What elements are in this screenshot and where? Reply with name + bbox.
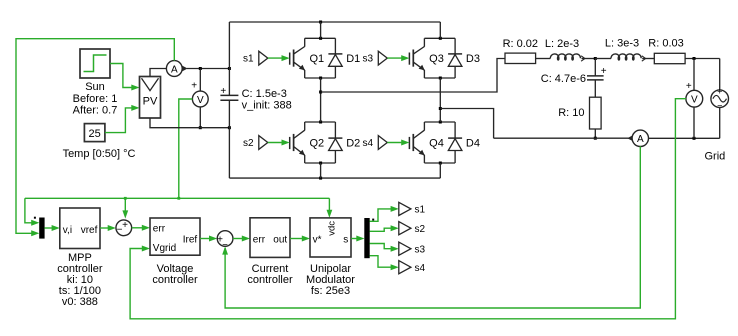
- wire Iref to sum2: [200, 236, 217, 242]
- diode D3: [448, 38, 480, 78]
- svg-text:C: 4.7e-6: C: 4.7e-6: [541, 73, 586, 85]
- svg-text:Vgrid: Vgrid: [153, 243, 176, 254]
- goto tag s1: [399, 202, 426, 215]
- transistor Q3: [409, 37, 455, 80]
- wire s to demux: [351, 236, 365, 242]
- svg-text:R: 10: R: 10: [558, 107, 584, 119]
- svg-text:Before: 1: Before: 1: [73, 93, 118, 105]
- wire A1 output arrow to DC bus: [182, 66, 231, 71]
- wire bridge output lower to filter return: [440, 109, 493, 139]
- capacitor C: 4.7e-6 branch: [541, 59, 607, 98]
- svg-text:L: 3e-3: L: 3e-3: [605, 38, 639, 50]
- wire leg stems right: [439, 22, 442, 178]
- svg-text:s2: s2: [415, 224, 426, 235]
- diode D1: [328, 38, 360, 78]
- resistor R: 10: [558, 97, 601, 140]
- wire R2 to grid corner: [685, 57, 720, 60]
- svg-text:err: err: [153, 223, 166, 234]
- measurement wire V1 down to vdc line: [179, 99, 193, 198]
- svg-text:+: +: [191, 80, 197, 91]
- transistor Q2: [290, 121, 336, 165]
- svg-text:−: −: [717, 101, 722, 111]
- step source Sun block: [80, 49, 110, 78]
- svg-text:A: A: [171, 64, 178, 75]
- svg-text:D2: D2: [346, 138, 360, 150]
- label Current controller: [247, 263, 293, 286]
- diode D2: [328, 122, 360, 163]
- Current controller block: [250, 218, 290, 258]
- goto tag s2: [399, 222, 426, 235]
- Unipolar Modulator block: [310, 218, 351, 257]
- wire sum2 to Current controller: [233, 236, 250, 242]
- wire Sun to PV input 1: [110, 64, 140, 91]
- svg-text:+: +: [686, 81, 692, 92]
- gate signal tag s4: [362, 136, 409, 150]
- gate signal tag s2: [243, 136, 290, 150]
- transistor Q1: [290, 37, 336, 80]
- svg-text:V: V: [197, 95, 204, 106]
- mux (v,i): [34, 217, 45, 239]
- measurement wire A2 to current sum: [222, 146, 640, 308]
- svg-text:s3: s3: [415, 244, 426, 255]
- svg-text:controller: controller: [152, 274, 198, 286]
- wire demux to goto s2: [370, 225, 399, 231]
- ammeter A1 (PV current): [166, 61, 182, 77]
- svg-text:v*: v*: [313, 234, 322, 245]
- sum junction 1: [116, 220, 132, 236]
- svg-text:L: 2e-3: L: 2e-3: [545, 38, 579, 50]
- svg-text:D3: D3: [466, 53, 480, 65]
- svg-text:25: 25: [88, 128, 100, 140]
- DC link rail left with capacitor C 1.5e-3: [220, 22, 238, 178]
- wire sum1 to Voltage controller: [132, 225, 150, 231]
- sum junction 2: [217, 231, 233, 251]
- wire mux to MPP controller: [44, 225, 59, 231]
- svg-text:fs: 25e3: fs: 25e3: [311, 285, 350, 297]
- label Sun / Before / After: [73, 81, 118, 117]
- resistor R: 0.03: [648, 38, 685, 64]
- measurement wire A1 to mux (PV current): [16, 39, 174, 237]
- svg-text:s1: s1: [415, 205, 426, 216]
- svg-text:D1: D1: [346, 53, 360, 65]
- transistor Q4: [409, 121, 455, 165]
- voltmeter V1 (PV voltage): [191, 69, 208, 130]
- svg-text:v0: 388: v0: 388: [62, 296, 98, 308]
- diode D4: [448, 122, 480, 163]
- inductor L: 3e-3: [595, 38, 654, 62]
- wire L1 to node: [582, 57, 597, 60]
- demux bus: [364, 218, 374, 258]
- label Unipolar Modulator fs: [306, 263, 355, 297]
- svg-text:+: +: [601, 66, 607, 77]
- svg-text:Sun: Sun: [85, 81, 105, 93]
- svg-text:PV: PV: [143, 96, 158, 108]
- label Temp [0:50] C: [63, 148, 136, 160]
- svg-text:s4: s4: [415, 263, 426, 274]
- svg-text:Grid: Grid: [705, 150, 726, 162]
- label Voltage controller: [152, 263, 198, 286]
- svg-text:s3: s3: [362, 54, 373, 65]
- Voltage controller block: [150, 218, 200, 255]
- svg-text:s1: s1: [243, 54, 254, 65]
- gate signal tag s1: [243, 51, 290, 65]
- goto tag s3: [399, 242, 426, 255]
- svg-text:vref: vref: [81, 225, 98, 236]
- constant block 25: [84, 124, 105, 142]
- MPP controller block: [60, 208, 100, 249]
- svg-text:s: s: [343, 234, 348, 245]
- goto tag s4: [399, 261, 426, 274]
- svg-text:+: +: [220, 86, 226, 97]
- svg-text:Q3: Q3: [429, 53, 444, 65]
- wire PV+ to ammeter A1: [150, 69, 166, 77]
- svg-text:V: V: [691, 95, 698, 106]
- measurement wire V2 to Vgrid: [130, 99, 686, 319]
- label MPP controller ki ts v0: [57, 252, 103, 308]
- ammeter A2 (grid current): [632, 130, 720, 146]
- svg-text:Q1: Q1: [309, 53, 324, 65]
- voltmeter V2 (grid voltage): [686, 59, 703, 139]
- wire vdc branch to sum1: [122, 198, 128, 218]
- AC source Grid: [711, 59, 729, 139]
- svg-text:+: +: [717, 87, 722, 97]
- svg-text:+: +: [122, 220, 128, 231]
- wire PV- to DC bus bottom: [150, 118, 231, 129]
- svg-text:A: A: [637, 134, 644, 145]
- svg-text:After: 0.7: After: 0.7: [73, 105, 118, 117]
- svg-text:D4: D4: [466, 138, 480, 150]
- H-bridge top rail: [229, 21, 440, 24]
- filter bottom rail: [494, 136, 633, 141]
- svg-text:out: out: [273, 234, 287, 245]
- label C: 1.5e-3 / v_init: 388: [242, 88, 292, 112]
- wire demux to goto s1: [370, 206, 399, 221]
- inductor L: 2e-3: [545, 38, 585, 61]
- svg-text:v,i: v,i: [63, 225, 72, 236]
- svg-text:err: err: [253, 234, 266, 245]
- gate signal tag s3: [362, 51, 409, 65]
- H-bridge bottom rail: [229, 177, 440, 180]
- wire bridge output upper to filter: [321, 59, 505, 93]
- svg-text:Temp [0:50] °C: Temp [0:50] °C: [63, 148, 136, 160]
- svg-text:Q2: Q2: [309, 138, 324, 150]
- wire 25 to PV input 2: [105, 105, 140, 133]
- svg-text:controller: controller: [247, 274, 293, 286]
- svg-text:v_init: 388: v_init: 388: [242, 99, 292, 111]
- svg-text:vdc: vdc: [327, 221, 338, 236]
- svg-text:−: −: [117, 225, 123, 236]
- label Grid: [705, 150, 726, 162]
- PV array block: [140, 77, 161, 119]
- svg-text:C: 1.5e-3: C: 1.5e-3: [242, 88, 287, 100]
- svg-text:Q4: Q4: [429, 138, 444, 150]
- resistor R: 0.02: [503, 38, 538, 64]
- svg-text:s4: s4: [362, 138, 373, 149]
- wire out to modulator: [290, 236, 310, 242]
- svg-text:R: 0.02: R: 0.02: [503, 38, 538, 50]
- vdc measurement line: [25, 197, 332, 226]
- wire leg stems left: [319, 22, 322, 178]
- wire demux to goto s3: [370, 244, 399, 252]
- wire R1 to L1: [536, 58, 551, 60]
- wire demux to goto s4: [370, 256, 399, 271]
- svg-text:s2: s2: [243, 138, 254, 149]
- wire MPP vref to sum1: [100, 225, 116, 231]
- svg-text:−: −: [222, 240, 228, 251]
- svg-text:Iref: Iref: [183, 234, 198, 245]
- svg-text:R: 0.03: R: 0.03: [648, 38, 683, 50]
